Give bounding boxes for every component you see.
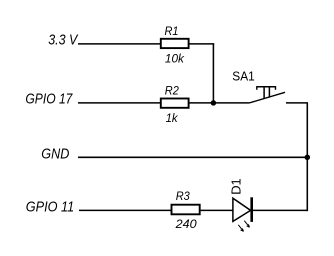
svg-text:GND: GND: [41, 146, 69, 162]
wire GPIO17 to R2: [78, 102, 160, 104]
wire right bus vertical: [306, 103, 308, 211]
svg-text:1k: 1k: [166, 111, 179, 125]
wire R1 branch vertical: [212, 44, 214, 103]
resistor R2: [161, 84, 189, 126]
svg-text:10k: 10k: [165, 52, 185, 66]
LED D1: [229, 178, 252, 231]
svg-text:R3: R3: [176, 189, 190, 203]
wire R1 to corner: [189, 43, 214, 45]
wire LED to bus: [253, 209, 308, 211]
junction node dot R1/R2: [211, 100, 217, 106]
wire GPIO11 to R3: [79, 209, 171, 211]
svg-text:3.3 V: 3.3 V: [48, 33, 78, 49]
junction node dot GND/bus: [305, 155, 311, 161]
resistor R1: [161, 24, 189, 66]
resistor R3: [172, 189, 200, 231]
svg-text:GPIO 17: GPIO 17: [25, 92, 73, 108]
svg-text:240: 240: [175, 217, 197, 231]
wire 3.3V to R1: [78, 43, 160, 45]
svg-text:R1: R1: [165, 24, 179, 38]
svg-text:SA1: SA1: [232, 69, 254, 83]
wire switch right contact: [286, 102, 308, 104]
svg-text:R2: R2: [165, 84, 179, 98]
svg-text:D1: D1: [229, 178, 244, 195]
wire R2 to switch: [189, 102, 249, 104]
svg-text:GPIO 11: GPIO 11: [26, 200, 74, 216]
wire R3 to LED: [201, 209, 233, 211]
switch SA1: [232, 69, 285, 103]
wire GND: [78, 156, 307, 158]
